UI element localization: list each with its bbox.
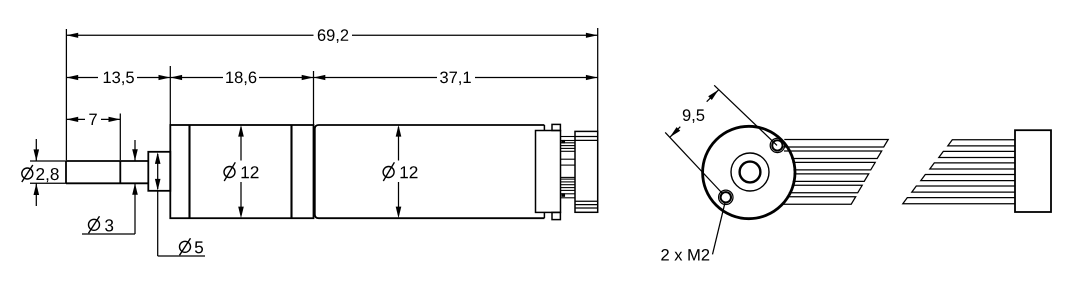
dimension phi 2,8 — [22, 139, 66, 206]
shaft outline — [66, 161, 148, 183]
mounting hole bottom-left — [719, 190, 733, 204]
front wire fan — [781, 140, 888, 205]
motor tube outline — [315, 125, 545, 218]
dimension 7 — [66, 114, 120, 161]
motor end cap — [536, 124, 561, 219]
mounting hole top-right — [770, 138, 784, 152]
dimension 9,5 — [665, 85, 777, 193]
dimension phi 5 — [155, 152, 205, 256]
dimension phi 12 gearbox — [224, 125, 259, 218]
rear connector block — [575, 131, 598, 212]
leader 2 x M2 — [661, 202, 725, 261]
ribbon cable wires — [903, 140, 1015, 204]
front view shaft circle — [740, 162, 761, 183]
dimension 69,2 — [66, 28, 597, 160]
cap bottom tab — [552, 212, 560, 219]
flange phi5 outline — [148, 152, 170, 191]
dimension 13,5 — [66, 72, 170, 86]
gearbox outline — [170, 125, 313, 218]
flex lead comb — [561, 137, 576, 198]
front view body circle — [703, 126, 795, 218]
dimension phi 3 — [82, 140, 138, 234]
dimension 37,1 — [314, 71, 598, 125]
front view boss circle — [731, 153, 769, 191]
ribbon connector block — [1015, 130, 1051, 212]
dimension 18,6 — [170, 66, 313, 125]
cap top tab — [552, 124, 560, 130]
dimension phi 12 motor — [383, 125, 417, 218]
